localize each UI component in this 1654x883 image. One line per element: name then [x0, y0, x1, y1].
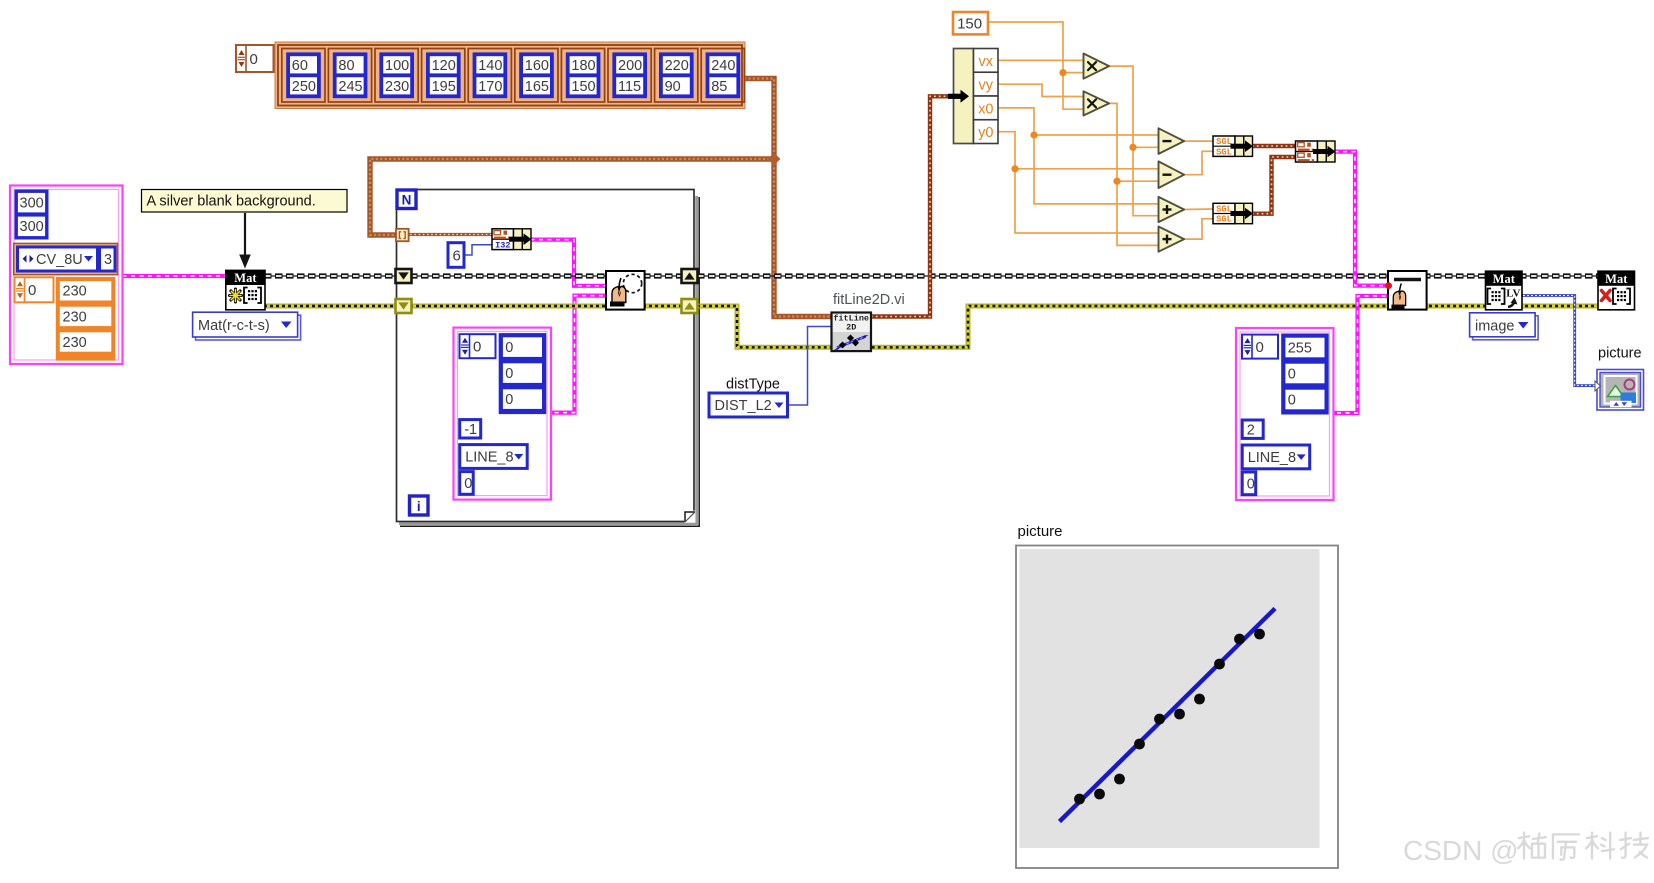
svg-text:image: image	[1475, 318, 1515, 334]
svg-text:120: 120	[432, 58, 456, 74]
junction dot: x0 branch	[1030, 131, 1037, 138]
junction dot: y0 branch	[1011, 165, 1018, 172]
svg-text:CV_8U: CV_8U	[36, 252, 83, 268]
svg-text:Mat(r-c-t-s): Mat(r-c-t-s)	[198, 318, 270, 334]
svg-text:140: 140	[478, 58, 502, 74]
wire: y0 branch to add2	[1015, 169, 1159, 233]
node: releaseMat (Mat X)	[1598, 271, 1635, 310]
node: MatToImage (Mat->LV)	[1486, 271, 1523, 310]
wire: error drawCircle to shift register	[643, 304, 685, 309]
junction: rope branch	[768, 153, 781, 166]
svg-text:LINE_8: LINE_8	[1248, 450, 1296, 466]
node: fitLine2D.vi	[832, 313, 872, 352]
shift register right (Mat)	[682, 269, 698, 283]
svg-text:I32: I32	[495, 240, 510, 250]
wire: error drawLine to releaseMat	[1423, 304, 1598, 309]
svg-text:170: 170	[478, 79, 502, 95]
array constant: color values	[1281, 334, 1329, 415]
free label: A silver blank background.	[142, 190, 348, 213]
shift register right (error)	[682, 299, 698, 313]
svg-text:LINE_8: LINE_8	[465, 450, 513, 466]
wire: points array branch to for loop tunnel	[370, 159, 774, 235]
wire: error: createMat to loop	[264, 304, 398, 309]
wire: vx to multiply1	[998, 59, 1084, 61]
enum constant CV_8U	[18, 247, 98, 271]
wire: vy to multiply2	[998, 84, 1084, 96]
numeric constant 6	[448, 243, 464, 268]
wire: multiply2 branch to add2	[1117, 181, 1159, 245]
svg-text:0: 0	[1256, 339, 1264, 356]
ring constant LINE_8	[460, 445, 528, 469]
loop iteration terminal i	[410, 496, 429, 515]
array index control of points array	[236, 45, 274, 72]
svg-text:245: 245	[338, 79, 362, 95]
wire: multiply1 out to subtract1	[1108, 66, 1159, 147]
wire: bundle to drawCircle center input	[531, 240, 607, 286]
svg-text:150: 150	[571, 79, 595, 95]
junction dot: 150 branch	[1059, 69, 1066, 76]
wire: color cluster to drawLine	[1329, 296, 1389, 413]
svg-text:0: 0	[473, 339, 481, 356]
svg-text:300: 300	[20, 219, 44, 235]
bundle node: point cluster (x,I32)	[492, 229, 532, 251]
polymorphic selector Mat(r-c-t-s)	[193, 312, 301, 340]
wire: point2 cluster to buildArray bundle	[1252, 157, 1296, 214]
polymorphic selector image	[1470, 313, 1539, 340]
bundle node: point2 (SGL,SGL)	[1213, 203, 1253, 224]
svg-text:195: 195	[432, 79, 456, 95]
svg-text:x0: x0	[978, 101, 993, 117]
cluster constant: line color 255,0,0 / thickness 2	[1236, 328, 1334, 500]
label arrow to createMat	[239, 213, 251, 269]
wire: Mat wire: createMat to loop	[264, 275, 398, 277]
svg-text:N: N	[402, 193, 412, 208]
svg-text:255: 255	[1288, 341, 1312, 357]
svg-text:0: 0	[505, 392, 513, 408]
coercion dot (red) on drawLine	[1385, 282, 1392, 289]
wire: subtract2 to bundle SGL1	[1184, 151, 1213, 174]
svg-text:85: 85	[711, 79, 727, 95]
node: createMat (Mat)	[226, 270, 265, 309]
svg-text:picture: picture	[1598, 346, 1642, 362]
junction dot: m1 branch	[1129, 144, 1136, 151]
array index control of 230 array	[15, 277, 54, 302]
svg-text:230: 230	[63, 309, 87, 325]
wire: Mat wire loop to drawLine	[697, 275, 1388, 277]
add node 1 (x0+vx150)	[1159, 197, 1185, 222]
unbundle by name: vx vy x0 y0	[948, 49, 998, 144]
wire: constant 150 to multiply2	[988, 22, 1084, 109]
svg-text:2D: 2D	[846, 322, 856, 332]
wire: 150 branch to multiply1	[1063, 72, 1084, 74]
svg-text:2: 2	[1247, 422, 1255, 438]
subtract node 1 (x0-vx150)	[1159, 128, 1185, 154]
multiply node 2 (vy*150)	[1084, 91, 1110, 115]
svg-text:80: 80	[338, 58, 354, 74]
svg-text:0: 0	[505, 340, 513, 356]
bundle node: point1 (SGL,SGL)	[1213, 136, 1253, 157]
svg-text:distType: distType	[726, 377, 780, 393]
build array node: 2 point clusters	[1296, 141, 1336, 162]
wire: Mat wire drawCircle to right shift register	[643, 275, 685, 277]
wire: multiply1 branch to add1	[1133, 147, 1159, 215]
svg-text:A silver blank background.: A silver blank background.	[147, 194, 316, 210]
svg-text:vx: vx	[979, 54, 994, 70]
svg-text:115: 115	[618, 79, 641, 95]
svg-text:SGL: SGL	[1216, 137, 1232, 147]
svg-text:230: 230	[385, 79, 409, 95]
svg-text:165: 165	[525, 79, 549, 95]
numeric constant shift 0	[1242, 472, 1256, 495]
svg-text:-1: -1	[464, 422, 477, 438]
numeric constant 3 (channels)	[100, 247, 116, 271]
wire: error inside loop to drawCircle	[410, 304, 608, 309]
svg-text:picture: picture	[1018, 523, 1063, 540]
array constant: color values	[499, 333, 547, 414]
cluster constant: circle color/thickness/lineType	[454, 328, 552, 500]
cluster frame: type ring + channels	[14, 243, 118, 274]
numeric constant shift 0	[460, 472, 474, 495]
wire: Mat wire MatToImage to releaseMat	[1519, 275, 1598, 277]
svg-text:160: 160	[525, 58, 549, 74]
svg-text:0: 0	[1288, 367, 1296, 383]
svg-text:3: 3	[104, 252, 112, 268]
watermark CSDN @(hanzi)	[1403, 833, 1648, 867]
svg-text:230: 230	[63, 335, 87, 351]
svg-text:vy: vy	[979, 78, 994, 94]
array constant: background color 230,230,230	[56, 277, 116, 361]
numeric constant thickness	[460, 420, 481, 438]
svg-text:60: 60	[292, 58, 308, 74]
svg-text:300: 300	[20, 196, 44, 212]
wire: error loop to drawLine via fitLine2D	[697, 306, 1388, 347]
wire: add1 to bundle SGL2	[1184, 208, 1213, 211]
node: drawCircle	[606, 271, 645, 310]
svg-text:SGL: SGL	[1216, 147, 1232, 157]
svg-text:220: 220	[665, 58, 689, 74]
numeric constant thickness	[1242, 420, 1263, 438]
shift register left (error)	[396, 299, 412, 313]
svg-text:150: 150	[957, 16, 982, 33]
svg-text:i: i	[417, 499, 421, 514]
svg-text:90: 90	[665, 79, 681, 95]
wire: add2 to bundle SGL2	[1184, 219, 1213, 239]
wire: Mat wire drawLine to MatToImage	[1423, 275, 1486, 277]
ring constant DIST_L2	[709, 393, 788, 417]
wire: x0 branch to add1	[1034, 135, 1159, 204]
add node 2 (y0+vy150)	[1159, 227, 1185, 252]
wire: image to picture indicator	[1519, 296, 1599, 386]
svg-text:DIST_L2: DIST_L2	[715, 398, 772, 414]
wire: color cluster to drawCircle color input	[546, 296, 606, 413]
svg-text:180: 180	[571, 58, 595, 74]
node: drawLine	[1388, 271, 1427, 310]
numeric constant rows 300	[15, 190, 49, 240]
for loop frame N	[397, 190, 700, 527]
wire: y0 to subtract2	[998, 132, 1159, 169]
svg-text:0: 0	[28, 282, 36, 299]
wire: points array to fitLine2D	[744, 79, 832, 317]
wire: fitLine2D line cluster to unbundle	[871, 96, 954, 316]
multiply node 1 (vx*150)	[1084, 54, 1110, 79]
svg-text:0: 0	[1247, 477, 1255, 493]
svg-text:230: 230	[63, 284, 87, 300]
wire: x0 to subtract1	[998, 108, 1159, 135]
cluster constant: rows/cols/type/value for createMat	[10, 186, 123, 365]
array index control of color array	[460, 334, 496, 358]
data points (black dots) in picture	[1074, 629, 1265, 805]
svg-text:0: 0	[505, 366, 513, 382]
svg-text:240: 240	[711, 58, 735, 74]
subtract node 2 (y0-vy150)	[1159, 161, 1185, 188]
wire: constant 6 to bundle	[464, 245, 492, 255]
wire: Mat wire inside loop to drawCircle	[410, 275, 608, 277]
svg-text:LV: LV	[1506, 288, 1520, 300]
array index control of color array	[1242, 335, 1278, 359]
svg-text:250: 250	[292, 79, 316, 95]
shift register left (Mat)	[396, 269, 412, 283]
svg-text:0: 0	[1288, 393, 1296, 409]
auto-index tunnel []	[396, 229, 409, 241]
wire: Mat cluster constant to createMat	[123, 274, 227, 278]
svg-text:SGL: SGL	[1216, 205, 1232, 215]
svg-text:fitLine2D.vi: fitLine2D.vi	[833, 292, 905, 308]
array constant: points (10 clusters of 2 ints)	[275, 42, 745, 109]
junction dot: m2 branch	[1113, 178, 1120, 185]
wire: multiply2 out to subtract2	[1108, 103, 1159, 181]
ring constant LINE_8	[1242, 445, 1310, 469]
wire: point1 cluster to buildArray bundle	[1252, 144, 1296, 148]
svg-text:Mat: Mat	[1605, 272, 1628, 286]
svg-text:SGL: SGL	[1216, 215, 1232, 225]
wire: points bundle to drawLine	[1335, 152, 1389, 286]
indicator terminal: picture	[1595, 370, 1644, 411]
picture indicator panel	[1016, 546, 1338, 869]
loop count terminal N	[397, 190, 416, 209]
fitted line (blue) in picture	[1060, 609, 1276, 822]
svg-text:Mat: Mat	[1493, 272, 1516, 286]
svg-text:y0: y0	[978, 125, 993, 141]
svg-text:Mat: Mat	[234, 271, 257, 285]
wire: distType to fitLine2D	[788, 327, 833, 406]
svg-text:0: 0	[250, 51, 258, 68]
wire: subtract1 to bundle SGL1	[1184, 140, 1213, 142]
svg-text:200: 200	[618, 58, 642, 74]
svg-text:0: 0	[464, 476, 472, 492]
svg-text:CSDN @: CSDN @	[1403, 835, 1519, 866]
svg-text:100: 100	[385, 58, 409, 74]
svg-text:6: 6	[453, 247, 461, 264]
wire: loop tunnel to bundle	[406, 233, 492, 236]
numeric constant 150	[953, 12, 988, 34]
